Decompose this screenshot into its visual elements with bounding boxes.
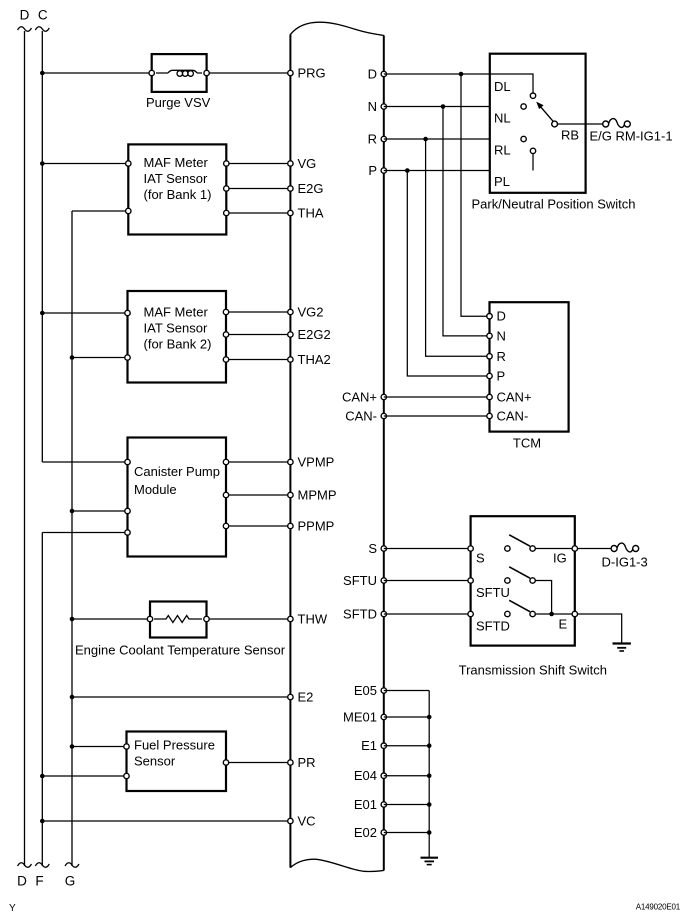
svg-text:VG: VG [298, 156, 317, 171]
wire fuel-pressure lower feed [40, 774, 127, 779]
wire MPMP row [226, 494, 290, 496]
ECM bus body (torn-edge vertical connector strip) [290, 22, 383, 871]
wire VPMP row [226, 461, 290, 463]
pin THA2 [288, 352, 331, 367]
pin S [368, 541, 386, 556]
pin TSS IG [572, 546, 577, 551]
pin E1 [361, 738, 386, 753]
svg-text:Engine Coolant Temperature Sen: Engine Coolant Temperature Sensor [75, 643, 286, 658]
pin canister VPMP [223, 459, 228, 464]
pin canister PPMP [223, 523, 228, 528]
svg-text:N: N [368, 99, 377, 114]
svg-text:E/G RM-IG1-1: E/G RM-IG1-1 [590, 129, 673, 144]
svg-text:D: D [17, 874, 27, 889]
svg-text:CAN+: CAN+ [497, 390, 532, 405]
svg-text:IG: IG [553, 551, 567, 566]
contact PL [530, 148, 535, 170]
wire F (lower segment of second vertical wire, from PPMP feed down) [35, 533, 127, 868]
pin TSS SFTU [468, 578, 473, 583]
pin SFTD [343, 607, 386, 622]
pin PRG [288, 66, 326, 81]
svg-text:MPMP: MPMP [298, 488, 337, 503]
park/neutral position switch U1 [490, 54, 586, 193]
pin E2 [288, 690, 314, 705]
pin MAF1 E2G [224, 186, 229, 191]
svg-text:D: D [368, 67, 377, 82]
wire THA row [226, 212, 290, 214]
svg-text:D: D [20, 8, 30, 23]
pin VC [288, 814, 316, 829]
pin ECT right [204, 616, 209, 621]
coil of purge VSV [168, 70, 197, 76]
svg-text:E: E [559, 617, 568, 632]
wire P row to switch [384, 168, 533, 173]
MAF meter IAT sensor bank 1 [128, 144, 226, 234]
pin E02 [354, 825, 387, 840]
pin TSS SFTD [468, 611, 473, 616]
svg-text:CAN+: CAN+ [342, 390, 377, 405]
wire PRG row [40, 71, 290, 76]
svg-text:MAF Meter: MAF Meter [144, 305, 209, 320]
pin TCM D [487, 314, 492, 319]
svg-text:R: R [497, 349, 506, 364]
pin TCM R [487, 354, 492, 359]
pin FPS left lower [124, 773, 129, 778]
svg-text:(for Bank 2): (for Bank 2) [144, 337, 212, 352]
svg-text:G: G [65, 874, 76, 889]
canister pump module [128, 438, 227, 557]
wire E1 row [384, 743, 432, 748]
wire SFTU row to switch [384, 580, 505, 582]
svg-text:MAF Meter: MAF Meter [144, 155, 209, 170]
svg-text:CAN-: CAN- [497, 409, 529, 424]
svg-text:TCM: TCM [513, 436, 541, 451]
purge VSV (solenoid valve) [152, 54, 207, 92]
pin FPS right [223, 760, 228, 765]
pin MAF2 left upper [125, 310, 130, 315]
svg-text:E1: E1 [361, 738, 377, 753]
svg-text:Park/Neutral Position Switch: Park/Neutral Position Switch [471, 197, 635, 212]
svg-text:RB: RB [561, 128, 579, 143]
pin canister left middle [125, 508, 130, 513]
svg-text:PR: PR [298, 755, 316, 770]
svg-text:Module: Module [134, 482, 177, 497]
svg-text:SFTD: SFTD [476, 619, 510, 634]
pin N [368, 99, 387, 114]
pin FPS left upper [124, 744, 129, 749]
transmission shift switch U3 [471, 516, 575, 645]
pin TSS S [468, 546, 473, 551]
wire drop N to TCM [443, 107, 487, 336]
pin canister left upper [125, 459, 130, 464]
svg-text:D: D [497, 309, 506, 324]
wire RB output [558, 123, 603, 125]
svg-text:RL: RL [494, 143, 511, 158]
svg-text:ME01: ME01 [343, 710, 377, 725]
wire C (upper segment of second vertical wire, feeds PRG/VG/VG2/VPMP) [35, 27, 127, 462]
pin VPMP [288, 455, 335, 470]
switch SFTU contacts [505, 567, 552, 614]
wire E02 row [384, 830, 432, 835]
svg-text:S: S [368, 541, 377, 556]
MAF meter IAT sensor bank 2 [128, 291, 227, 383]
pin VG2 [288, 305, 324, 320]
pin THA [288, 206, 324, 221]
pin MAF2 left lower [125, 355, 130, 360]
svg-text:SFTD: SFTD [343, 607, 377, 622]
wire E05 row [384, 690, 429, 692]
switch S contacts [505, 535, 572, 551]
wire S row to switch [384, 548, 505, 550]
svg-text:VG2: VG2 [298, 305, 324, 320]
wire drop D to TCM [461, 74, 487, 316]
wire fuel-pressure upper feed [70, 744, 127, 749]
svg-text:D-IG1-3: D-IG1-3 [602, 555, 648, 570]
pin MAF1 left upper [126, 161, 131, 166]
TCM U2 [490, 302, 569, 431]
svg-text:PRG: PRG [298, 66, 326, 81]
svg-text:THA2: THA2 [298, 352, 331, 367]
svg-text:E01: E01 [354, 797, 377, 812]
pin SFTU [343, 573, 386, 588]
wire SFTD row to switch [384, 613, 505, 615]
pin TCM CAN+ [487, 394, 492, 399]
wire N row to switch [384, 104, 521, 109]
svg-text:SFTU: SFTU [476, 585, 510, 600]
svg-text:THW: THW [298, 612, 328, 627]
ground (transmission shift switch) [613, 644, 631, 652]
svg-text:Sensor: Sensor [134, 754, 176, 769]
svg-text:PPMP: PPMP [298, 519, 335, 534]
svg-text:CAN-: CAN- [345, 409, 377, 424]
pin R [368, 132, 387, 147]
pin THW [288, 612, 328, 627]
svg-text:P: P [497, 369, 506, 384]
wire MPMP feed [70, 509, 128, 514]
wire E2G2 row [226, 334, 290, 336]
wire E2G row [226, 188, 290, 190]
svg-text:F: F [35, 874, 43, 889]
wire THW row [207, 618, 291, 620]
wire E01 row [384, 802, 432, 807]
pin ME01 [343, 710, 386, 725]
svg-text:Canister Pump: Canister Pump [134, 464, 220, 479]
pin MAF1 left lower [126, 208, 131, 213]
pivot contact RB [552, 121, 558, 127]
svg-text:PL: PL [494, 174, 510, 189]
svg-text:IAT Sensor: IAT Sensor [144, 171, 208, 186]
svg-text:P: P [368, 163, 377, 178]
connector D-IG1-3 [611, 543, 639, 552]
pin PR [288, 755, 316, 770]
svg-text:A149020E01: A149020E01 [636, 903, 681, 912]
wire D (left vertical harness wire) [18, 27, 32, 868]
pin CAN- [345, 409, 386, 424]
switch SFTD contacts [505, 600, 572, 616]
wire G (third vertical wire, from THA feed down) [65, 211, 128, 867]
wire PR row [226, 762, 290, 764]
svg-text:Y: Y [9, 903, 16, 914]
contact NL [521, 104, 526, 109]
wire ground bus vertical [428, 691, 430, 858]
pin purge VSV right [204, 70, 209, 75]
wire CAN- row [384, 415, 487, 417]
svg-text:NL: NL [494, 111, 511, 126]
pin TCM CAN- [487, 413, 492, 418]
wire E2 row [70, 695, 291, 700]
svg-text:THA: THA [298, 206, 324, 221]
svg-text:E2G2: E2G2 [298, 327, 331, 342]
wire E to ground [578, 614, 622, 643]
pin PPMP [288, 519, 335, 534]
pin MPMP [288, 488, 337, 503]
pin CAN+ [342, 390, 387, 405]
wire VG2 row [226, 311, 290, 313]
resistor element of ECT sensor [154, 616, 202, 623]
svg-text:S: S [476, 551, 485, 566]
pin P [368, 163, 386, 178]
svg-text:Transmission Shift Switch: Transmission Shift Switch [459, 663, 607, 678]
pin MAF2 E2G2 [223, 332, 228, 337]
pin canister left lower [125, 530, 130, 535]
wire VG row [226, 163, 290, 165]
pin MAF1 THA [224, 210, 229, 215]
wire THA2 row [226, 359, 290, 361]
pin E05 [354, 683, 387, 698]
wire E04 row [384, 773, 432, 778]
svg-text:VPMP: VPMP [298, 455, 335, 470]
wire drop R to TCM [426, 139, 487, 356]
pin D [368, 67, 387, 82]
pin TCM P [487, 373, 492, 378]
svg-text:VC: VC [298, 814, 316, 829]
svg-text:E2: E2 [298, 690, 314, 705]
svg-text:SFTU: SFTU [343, 573, 377, 588]
pin ECT left [147, 616, 152, 621]
pin MAF1 VG [224, 161, 229, 166]
svg-text:E04: E04 [354, 768, 377, 783]
wire drop P to TCM [407, 171, 487, 377]
pin VG [288, 156, 317, 171]
wire ME01 row [384, 715, 432, 720]
wire THW feed [70, 617, 150, 622]
pin MAF2 VG2 [223, 309, 228, 314]
svg-text:N: N [497, 328, 506, 343]
svg-text:E2G: E2G [298, 181, 324, 196]
ground (ECM earth) [421, 858, 439, 865]
wire THA2 feed [70, 355, 128, 360]
pin E04 [354, 768, 387, 783]
wire R row to switch [384, 137, 521, 142]
svg-text:E05: E05 [354, 683, 377, 698]
svg-text:C: C [38, 8, 48, 23]
wire VG2 feed [40, 311, 128, 316]
pin TCM N [487, 333, 492, 338]
svg-text:Fuel Pressure: Fuel Pressure [134, 738, 215, 753]
connector E/G RM-IG1-1 [603, 119, 631, 128]
pin MAF2 THA2 [223, 357, 228, 362]
engine coolant temperature sensor [150, 602, 207, 638]
svg-text:(for Bank 1): (for Bank 1) [144, 187, 212, 202]
pin canister MPMP [223, 492, 228, 497]
contact DL [490, 74, 536, 98]
selector blade with arrow [536, 102, 553, 122]
wire D row to switch [384, 72, 490, 77]
pin purge VSV left [149, 70, 154, 75]
wire IG output [578, 548, 612, 550]
wire PPMP row [226, 525, 290, 527]
pin E01 [354, 797, 387, 812]
wire VG feed [40, 161, 128, 166]
wire CAN+ row [384, 396, 487, 398]
wire VC row [40, 819, 290, 824]
svg-text:Purge VSV: Purge VSV [146, 95, 211, 110]
svg-text:E02: E02 [354, 825, 377, 840]
svg-text:DL: DL [494, 79, 511, 94]
svg-text:IAT Sensor: IAT Sensor [144, 321, 208, 336]
pin E2G [288, 181, 324, 196]
svg-text:R: R [368, 132, 377, 147]
contact RL [521, 136, 526, 141]
pin E2G2 [288, 327, 331, 342]
pin TSS E [572, 611, 577, 616]
fuel pressure sensor [127, 732, 227, 792]
